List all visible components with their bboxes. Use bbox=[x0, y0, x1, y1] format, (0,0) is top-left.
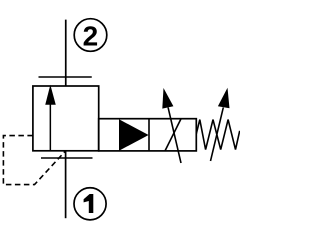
spring adjust arrow shaft bbox=[211, 108, 224, 162]
pilot section body rect bbox=[99, 119, 197, 151]
bottom seat line bbox=[41, 157, 93, 159]
spring adjust arrowhead bbox=[218, 88, 230, 108]
wire port 2 vertical line bbox=[65, 20, 67, 86]
node port 2 circle bbox=[74, 19, 107, 52]
check valve triangle bbox=[119, 119, 149, 150]
blocked position diagonal bbox=[165, 119, 181, 151]
node port 1 circle bbox=[74, 188, 106, 220]
top seat line bbox=[39, 76, 92, 78]
svg-text:2: 2 bbox=[83, 20, 99, 51]
main valve envelope box bbox=[33, 86, 99, 151]
proportional arrowhead bbox=[162, 88, 173, 109]
spring bbox=[196, 120, 239, 150]
flow arrowhead bbox=[45, 85, 56, 105]
pilot dashed line bbox=[3, 136, 65, 185]
proportional arrow shaft bbox=[168, 108, 181, 164]
position divider line bbox=[148, 119, 150, 151]
wire port 1 vertical line bbox=[65, 151, 67, 218]
node port 1 label bbox=[84, 194, 94, 213]
flow arrow shaft bbox=[49, 104, 51, 151]
